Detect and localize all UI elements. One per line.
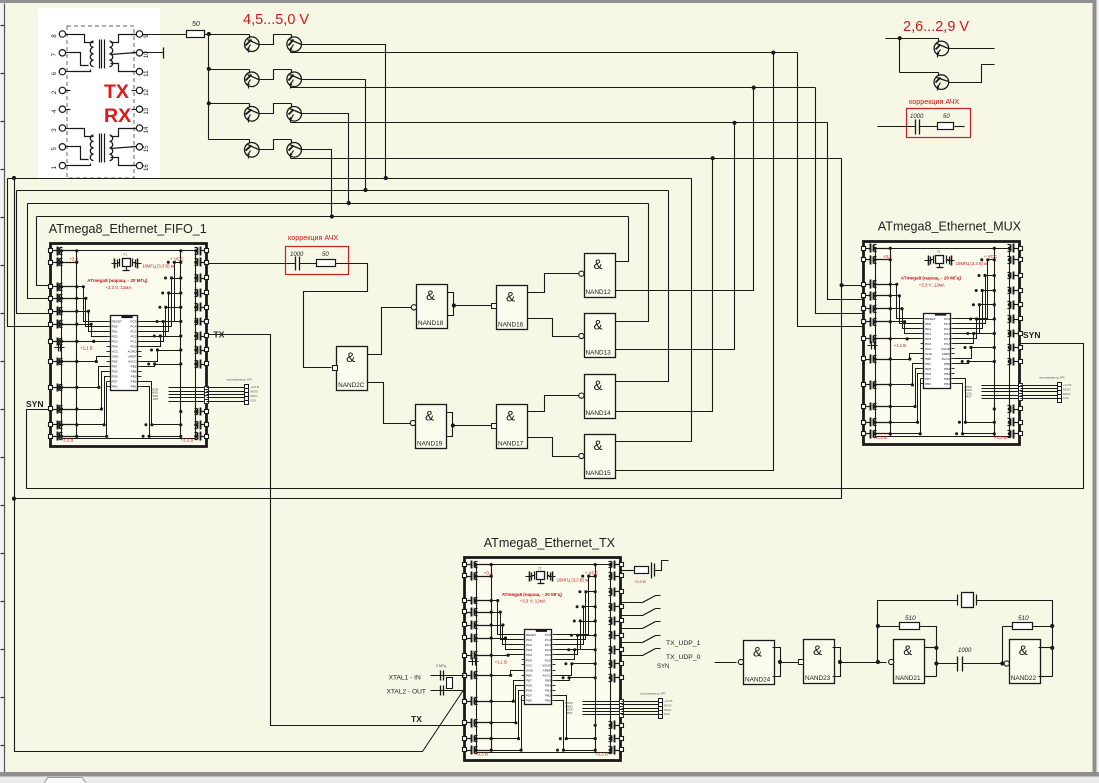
svg-text:ATmega8 (наращ. - 20 МГц): ATmega8 (наращ. - 20 МГц) [87,278,148,283]
MUX left pin row 7 [862,337,866,341]
svg-text:PC5: PC5 [130,319,136,323]
svg-text:ATmega8_Ethernet_FIFO_1: ATmega8_Ethernet_FIFO_1 [49,222,207,236]
wire NAND24-NAND23 [781,662,799,664]
TXB left pin row 11 [463,737,467,741]
svg-text:PC5: PC5 [944,317,950,321]
svg-text:NAND14: NAND14 [586,410,612,417]
branch row4 [209,139,250,141]
TXB left pin row 1 [463,563,467,567]
svg-text:&: & [425,409,434,424]
svg-text:программатор SPI: программатор SPI [226,378,252,382]
FIFO MCU pin 9 [107,361,111,363]
transistor Q9 [934,41,949,56]
wire NAND17-NAND14 [528,396,582,412]
svg-text:MISO: MISO [250,394,258,398]
wire x14 long vertical [15,179,465,752]
svg-text:AVCC: AVCC [128,360,137,364]
svg-text:PB6: PB6 [925,357,931,361]
svg-text:16МГЦ (3,3 В) кв: 16МГЦ (3,3 В) кв [557,577,590,582]
MUX MCU pin 12 [921,373,924,375]
svg-text:+3,3: +3,3 [484,570,493,575]
transistor Q3 [245,72,260,87]
MUX MCU pin 15 [952,383,955,385]
svg-text:SYN: SYN [657,664,669,670]
svg-text:PD2: PD2 [526,648,532,652]
TXB wire MCU-left 1 [492,601,522,635]
svg-text:MOSI: MOSI [1063,387,1071,391]
TXB MCU pin 21 [553,670,556,672]
svg-text:+3,3 В: +3,3 В [1063,383,1072,387]
svg-text:PC3: PC3 [545,643,551,647]
wire C2-R2 [300,263,317,265]
MUX MCU pin 23 [952,343,955,345]
FIFO wire MCU-left 6 [77,357,107,362]
FIFO right pin row 3 [205,276,209,280]
TXB left pin row 6 [463,636,467,640]
FIFO right pin row 6 [205,320,209,324]
svg-text:+3,3 V; 12мА: +3,3 V; 12мА [919,282,945,287]
MUX MCU pin 8 [921,353,924,355]
wire NAND out drop x734.5 [616,123,735,350]
svg-text:PD3: PD3 [112,339,118,343]
wire NAND24 input [715,662,737,664]
svg-text:10: 10 [143,51,150,58]
svg-text:MISO: MISO [664,708,672,712]
bus left drop x16.8 [17,191,51,314]
FIFO MCU pin 19 [138,366,142,368]
TXB wire MCU-left 5 [492,655,522,656]
svg-text:MISO: MISO [1063,392,1071,396]
transistor Q5 [245,107,260,122]
FIFO left pin row 3 [49,285,53,289]
FIFO MCU pin 17 [138,376,142,378]
resistor R2 50 [317,260,336,267]
FIFO right pin row 16 [205,423,209,427]
svg-text:MOSI: MOSI [664,703,672,707]
FIFO inner rails [61,251,63,439]
TXB MCU pin 27 [553,639,556,641]
gate NAND15 [585,435,616,479]
wire filter2 in [878,126,916,128]
svg-text:NAND15: NAND15 [586,470,612,477]
FIFO left pin row 2 [49,261,53,265]
FIFO right pin row 5 [205,306,209,310]
MUX wire MCU-left 2 [891,296,921,324]
TXB left decoupling caps [469,661,479,663]
TXB left pin row 4 [463,610,467,614]
MUX MCU pin 5 [921,338,924,340]
MUX wire MCU-left 5 [891,338,921,340]
svg-text:SCK: SCK [1063,396,1069,400]
TXB wire MCU-left 6 [492,671,522,676]
MUX right pin row 5 [1019,303,1023,307]
svg-text:NAND21: NAND21 [895,675,921,682]
node x14 y498 [12,497,16,501]
svg-text:PC2: PC2 [130,334,136,338]
svg-text:SCK: SCK [664,712,670,716]
transformer right pin 9 [136,31,142,37]
wire NAND17-NAND15 [528,438,582,457]
FIFO wire MCU-right 2 [142,279,181,327]
TXB MCU pin 3 [522,644,525,646]
svg-text:2 МГц: 2 МГц [436,664,446,668]
svg-text:PD5: PD5 [526,683,532,687]
svg-text:PC0: PC0 [130,344,136,348]
gate NAND16 [497,286,528,330]
MUX right pin row 15 [1019,407,1023,411]
TXB MCU pin 1 [522,634,525,636]
wire NAND19-NAND17 [453,425,492,427]
svg-text:&: & [753,645,762,660]
MUX MCU pin 13 [921,378,924,380]
svg-text:PC1: PC1 [130,339,136,343]
FIFO wire MCU-right 10 [142,387,181,437]
svg-text:PD4: PD4 [112,344,118,348]
TXB wire MCU-right 7 [556,664,596,676]
transistor Q2 [287,37,302,52]
svg-text:PB2: PB2 [131,380,137,384]
svg-text:16МГЦ (3,3 В) кв: 16МГЦ (3,3 В) кв [142,264,175,269]
FIFO MCU pin 12 [107,376,111,378]
FIFO wire MCU-left 2 [77,299,107,327]
TXB left pin row 2 [463,574,467,578]
TXB MCU pin 23 [553,659,556,661]
MUX MCU pin 14 [921,383,924,385]
svg-text:PD3: PD3 [526,653,532,657]
svg-text:+3,3 В: +3,3 В [180,438,193,443]
svg-text:NAND18: NAND18 [418,320,444,327]
svg-text:+3,3 В: +3,3 В [634,579,646,584]
svg-text:5: 5 [51,147,58,151]
TXB MCU pin 5 [522,654,525,656]
branch row3 [209,103,250,105]
MUX left pin row 4 [862,294,866,298]
wire pin9 to R1 [143,34,187,36]
svg-text:&: & [1019,643,1028,658]
gate NAND21 [894,640,925,684]
NAND21 loop [925,647,937,649]
FIFO left pin row 4 [49,297,53,301]
FIFO wire MCU-right 7 [142,351,181,362]
MUX MCU pin 25 [952,333,955,335]
bus line y190 [17,190,669,192]
TXB prog wire 5 [583,714,622,716]
TXB right pin row 1 [620,563,624,567]
TXB MCU pin 16 [553,695,556,697]
wire C3-R3 [920,126,938,128]
resistor R1 50 [187,31,205,38]
capacitor C2 1000 [295,257,297,271]
svg-text:NAND12: NAND12 [586,289,612,296]
FIFO prog wire 4 [169,397,207,399]
FIFO MCU pin 1 [107,321,111,323]
svg-text:PB0: PB0 [112,385,118,389]
svg-text:&: & [346,350,355,365]
MUX left pin row 2 [862,258,866,262]
gate NAND18 [417,285,448,329]
MUX left pin row 1 [862,247,866,251]
TXB MCU pin 2 [522,639,525,641]
svg-text:PC1: PC1 [944,337,950,341]
svg-text:&: & [593,438,602,453]
svg-text:PB3: PB3 [545,688,551,692]
MUX wire MCU-left 1 [891,285,921,319]
MUX MCU pin 3 [921,328,924,330]
svg-text:1: 1 [51,165,58,169]
pin10 open end [143,52,164,54]
wire Q7 to Q8 [260,140,292,150]
wire R5 right [1033,626,1053,628]
svg-text:PC0: PC0 [545,658,551,662]
MUX MCU pin 26 [952,328,955,330]
TXB left pin row 7 [463,654,467,658]
wire Q10 out [949,65,995,83]
wire x841 down to y498 [841,286,843,499]
svg-text:RESET: RESET [112,319,122,323]
svg-text:PD7: PD7 [112,380,118,384]
FIFO MCU pin 2 [107,326,111,328]
svg-text:+ VCC: + VCC [170,257,184,262]
svg-text:PB3: PB3 [131,375,137,379]
ruler ticks [1,25,5,27]
svg-text:ATmega8_Ethernet_TX: ATmega8_Ethernet_TX [484,536,616,550]
MUX left pin row 9 [862,383,866,387]
MUX right pin row 9 [1019,360,1023,364]
gate NAND17 [497,405,528,449]
TXB right pin row 5 [620,619,624,623]
FIFO right pin row 8 [205,348,209,352]
MUX MCU pin 28 [952,318,955,320]
wire NAND2C out B [368,383,419,424]
FIFO wire MCU-left 3 [77,312,107,332]
wire NAND13 riser x648 [616,204,649,322]
wire NAND14 riser x668 [616,191,669,382]
TXB left pin row 5 [463,623,467,627]
FIFO wire MCU-left 8 [77,372,107,410]
svg-text:&: & [506,409,515,424]
wire Q1 to Q2 [260,35,292,45]
svg-text:+3,3: +3,3 [883,254,892,259]
wire MUX feed x841.6 [842,159,864,286]
wire crystal left [878,601,958,663]
FIFO right pin row 7 [205,334,209,338]
wire Q9 out [949,48,995,50]
FIFO left pin row 12 [49,435,53,439]
svg-text:PD2: PD2 [112,334,118,338]
transformer left pin 8 [59,31,65,37]
svg-text:50: 50 [943,114,950,120]
transformer right pin 10 [136,50,142,56]
NAND23 loop [833,648,841,677]
wire NAND16-NAND12 [528,274,582,293]
svg-text:GND: GND [112,355,120,359]
transformer left pin 2 [59,87,65,93]
transistor Q7 [245,143,260,158]
FIFO right pin row 2 [205,261,209,265]
FIFO MCU pin 5 [107,341,111,343]
transistor Q6 [287,107,302,122]
FIFO wire MCU-right 3 [142,294,181,332]
transistor Q8 [287,143,302,158]
FIFO MCU pin 20 [138,361,142,363]
svg-text:AREF: AREF [942,352,950,356]
window frame right [1093,3,1097,777]
NAND18 feedback loop [448,293,454,316]
MUX left pin row 12 [862,432,866,436]
wire Q4 collector out [302,80,366,191]
MUX wire MCU-right 6 [955,334,995,344]
wire NAND out drop x753.7 [616,88,754,291]
transistor Q4 [287,72,302,87]
FIFO wire MCU-left 1 [77,287,107,322]
TXB right pin row 7 [620,648,624,652]
transformer left pin 5 [59,144,65,150]
FIFO MCU pin 8 [107,356,111,358]
FIFO MCU pin 26 [138,331,142,333]
transistor Q10 [934,75,949,90]
filter box 2 [907,109,971,138]
svg-text:RST: RST [567,711,573,715]
FIFO MCU pin 23 [138,346,142,348]
svg-text:14: 14 [143,126,150,133]
TXB MCU pin 7 [522,664,525,666]
wire MUX feed x827.8 [828,123,864,300]
TXB crystal circuit [529,572,531,582]
svg-text:+ VCC: + VCC [984,254,998,259]
svg-text:PD3: PD3 [925,337,931,341]
FIFO right pin row 9 [205,362,209,366]
svg-text:XTAL1 - IN: XTAL1 - IN [389,675,421,682]
svg-text:NAND24: NAND24 [745,677,771,684]
FIFO MCU pin 16 [138,381,142,383]
svg-text:VCC: VCC [925,347,932,351]
svg-text:8: 8 [51,34,58,38]
FIFO MCU pin 28 [138,321,142,323]
bus line y178 [8,178,692,180]
IC block MUX outline [864,242,1020,445]
capacitor C3 1000 [915,120,917,135]
TXB right pin row 15 [620,724,624,728]
svg-text:GND: GND [526,668,534,672]
transformer right pin 12 [136,87,142,93]
FIFO crystal circuit [114,259,116,269]
wire R4 right [920,627,937,677]
svg-text:коррекция АЧХ: коррекция АЧХ [288,233,338,242]
svg-text:510: 510 [1018,615,1029,622]
wire R1 to bus [205,34,250,36]
svg-text:PB5: PB5 [131,365,137,369]
FIFO MCU pin 14 [107,386,111,388]
wire C4-NAND22 [963,663,1005,665]
svg-text:PD5: PD5 [112,370,118,374]
svg-text:PB5: PB5 [545,678,551,682]
svg-text:1000: 1000 [290,252,304,258]
filter box 1 [286,247,349,275]
svg-text:50: 50 [322,252,329,258]
svg-text:16: 16 [143,164,150,171]
svg-text:+1,1 В: +1,1 В [495,659,507,664]
svg-text:PD5: PD5 [925,367,931,371]
TXB MCU pin 28 [553,634,556,636]
MUX MCU pin 22 [952,348,955,350]
svg-text:15: 15 [143,145,150,152]
wire NAND2C out A [368,308,420,355]
MUX wire MCU-right 10 [955,384,995,434]
FIFO MCU pin 4 [107,336,111,338]
svg-text:PC3: PC3 [130,329,136,333]
wire Q4 emitter to bus [291,87,816,89]
svg-text:NAND13: NAND13 [586,350,612,357]
transformer left pin 6 [59,68,65,74]
transformer left pin 4 [59,106,65,112]
TX block top-right RC [620,570,635,572]
svg-text:+1,1 В: +1,1 В [80,346,92,351]
svg-text:NAND19: NAND19 [417,441,443,448]
svg-text:AGND: AGND [941,347,951,351]
svg-text:PC1: PC1 [545,653,551,657]
svg-text:7: 7 [51,53,58,57]
MUX MCU pin 1 [921,318,924,320]
gate NAND12 [585,254,616,298]
svg-text:1000: 1000 [910,114,924,120]
svg-text:PB1: PB1 [944,382,950,386]
svg-text:&: & [506,290,515,305]
TXB MCU pin 18 [553,685,556,687]
gate NAND22 [1010,640,1041,684]
svg-text:50: 50 [192,21,200,28]
FIFO wire MCU-left 9 [77,377,107,425]
wire SYN net [27,344,1084,489]
MUX MCU pin 18 [952,368,955,370]
svg-text:PD0: PD0 [112,324,118,328]
TXB MCU pin 22 [553,664,556,666]
TXB MCU pin 6 [522,659,525,661]
wire R2 to NAND2C [304,264,368,368]
TXB MCU pin 12 [522,690,525,692]
svg-text:&: & [813,643,822,658]
MUX wire MCU-left 4 [891,322,921,334]
TXB left pin row 8 [463,674,467,678]
MUX wire MCU-left 7 [891,364,921,385]
wire NAND out drop x773.3 [616,53,774,471]
TXB prog wire 2 [583,704,622,706]
svg-text:PB0: PB0 [526,698,532,702]
TXB right pin row 2 [620,574,624,578]
MUX right pin row 2 [1019,258,1023,262]
svg-text:VCC: VCC [112,349,119,353]
TXB right pin row 4 [620,605,624,609]
wire NAND23-NAND21 [841,662,887,664]
svg-text:AVCC: AVCC [942,357,951,361]
bus left drop x7.9 [8,179,51,327]
TXB MCU pin 25 [553,649,556,651]
svg-text:PC2: PC2 [944,332,950,336]
svg-text:RX: RX [104,105,131,127]
svg-text:PB2: PB2 [545,693,551,697]
FIFO right pin row 15 [205,410,209,414]
FIFO MCU pin 11 [107,371,111,373]
wire Q2 collector out [302,45,386,179]
MUX prog wire 4 [982,395,1021,397]
svg-text:&: & [426,288,435,303]
NAND22 loop [1039,647,1053,649]
svg-text:SYN: SYN [26,399,43,409]
TXB MCU pin 11 [522,685,525,687]
TXB wire MCU-right 3 [556,607,596,645]
svg-text:ATmega8 (наращ. - 20 МГц): ATmega8 (наращ. - 20 МГц) [901,276,962,281]
FIFO wire MCU-left 5 [77,341,107,343]
FIFO left pin row 1 [49,249,53,253]
